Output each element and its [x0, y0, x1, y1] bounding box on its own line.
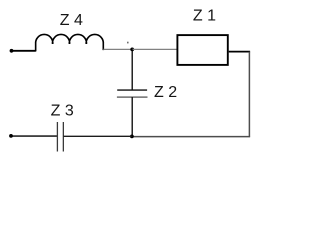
wire: Z1 to top-right corner: [229, 51, 250, 53]
wire: node A to impedance Z1: [132, 48, 177, 50]
wire: node B to bottom-right corner: [132, 136, 250, 138]
inductor Z4: [36, 34, 104, 51]
svg-text:Z 1: Z 1: [193, 8, 216, 25]
wire: Z4 to node A: [103, 48, 132, 50]
node B junction dot: [130, 135, 134, 139]
wire: Z2 to node B: [131, 97, 133, 136]
wire: right vertical (corner down to bottom rail): [248, 52, 250, 137]
speck mark above node A: [127, 42, 128, 44]
svg-text:Z 3: Z 3: [51, 103, 74, 120]
svg-text:Z 2: Z 2: [154, 84, 177, 101]
wire: node A down to capacitor Z2: [131, 49, 133, 90]
svg-text:Z 4: Z 4: [60, 12, 83, 29]
terminal node T1 (top-left input): [10, 49, 14, 53]
wire: T2 to capacitor Z3: [11, 135, 57, 137]
terminal node T2 (bottom-left input): [9, 134, 13, 138]
wire: Z3 to node B: [63, 135, 131, 137]
capacitor Z3: [57, 122, 63, 152]
impedance box Z1: [177, 35, 227, 65]
node A junction dot: [130, 48, 134, 52]
wire: T1 to inductor Z4: [12, 50, 36, 52]
capacitor Z2: [117, 90, 148, 97]
